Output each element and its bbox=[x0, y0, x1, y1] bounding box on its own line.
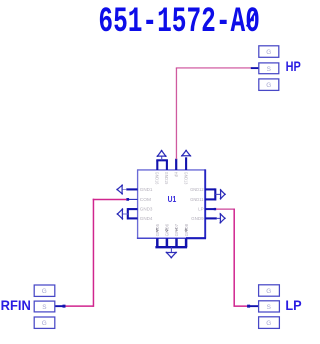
ground arrow GND9 bbox=[217, 213, 226, 223]
ground arrow GND3/GND4 bbox=[117, 208, 128, 219]
wire bracket GND3-GND4 bbox=[127, 208, 129, 219]
connector LP pad S bbox=[259, 301, 280, 312]
ground arrow GND1 bbox=[122, 189, 126, 191]
pin LP bbox=[198, 207, 214, 212]
svg-text:U1: U1 bbox=[168, 194, 177, 204]
svg-text:G: G bbox=[266, 320, 271, 327]
svg-text:S: S bbox=[267, 304, 271, 311]
wire bus bar bottom GND5-GND8 bbox=[155, 246, 187, 248]
connector HP pad G1 bbox=[259, 46, 279, 58]
svg-text:G: G bbox=[42, 288, 47, 295]
wire RFIN net bbox=[65, 199, 127, 307]
pin GND16 bbox=[155, 160, 160, 184]
svg-text:651-1572-A0: 651-1572-A0 bbox=[98, 2, 260, 42]
junction at COM bbox=[126, 198, 129, 201]
svg-text:HP: HP bbox=[174, 172, 179, 178]
wire stub LP connector bbox=[250, 305, 259, 307]
pin GND1 bbox=[126, 187, 153, 192]
wire HP net bbox=[176, 68, 259, 159]
svg-text:G: G bbox=[42, 320, 47, 327]
svg-text:GND9: GND9 bbox=[191, 216, 204, 221]
pin GND6 bbox=[165, 223, 170, 247]
junction at RFIN connector bbox=[63, 305, 66, 308]
svg-text:GND13: GND13 bbox=[183, 172, 188, 185]
svg-text:GND4: GND4 bbox=[140, 216, 153, 221]
wire stub RFIN connector bbox=[55, 305, 63, 307]
pin GND9 bbox=[191, 216, 217, 221]
pin COM bbox=[128, 197, 151, 202]
svg-text:GND16: GND16 bbox=[155, 172, 160, 185]
pin GND15 bbox=[164, 160, 169, 184]
connector RFIN pad G1 bbox=[34, 285, 55, 296]
connector HP pad S bbox=[259, 63, 279, 74]
pin GND11 bbox=[190, 197, 215, 202]
wire LP net bbox=[216, 209, 248, 307]
ground arrow GND12/GND11 bbox=[215, 189, 226, 199]
connector HP pad G2 bbox=[259, 79, 279, 91]
pin GND8 bbox=[184, 223, 189, 247]
op-amp U1 body bbox=[137, 169, 206, 238]
svg-text:S: S bbox=[42, 304, 46, 311]
pin GND7 bbox=[174, 223, 179, 247]
connector RFIN pad S bbox=[34, 301, 55, 312]
pin GND12 bbox=[190, 187, 215, 192]
slash of zero in title bbox=[247, 11, 256, 27]
wire bracket GND16-GND15 bbox=[156, 159, 168, 161]
junction at LP connector bbox=[247, 305, 250, 308]
connector LP pad G1 bbox=[259, 285, 280, 296]
connector LP pad G2 bbox=[259, 317, 280, 329]
ground arrow GND13 bbox=[182, 151, 190, 156]
pin HP bbox=[174, 159, 179, 178]
pin GND4 bbox=[128, 216, 153, 221]
svg-text:RFIN: RFIN bbox=[1, 297, 31, 313]
wire bracket GND12-GND11 bbox=[214, 188, 216, 200]
svg-text:GND3: GND3 bbox=[140, 207, 153, 212]
svg-text:G: G bbox=[266, 288, 271, 295]
pin GND13 bbox=[183, 157, 188, 184]
svg-text:LP: LP bbox=[198, 207, 204, 212]
svg-text:G: G bbox=[266, 82, 271, 89]
svg-text:GND12: GND12 bbox=[190, 187, 204, 192]
svg-text:LP: LP bbox=[285, 297, 301, 313]
pin GND5 bbox=[155, 223, 160, 247]
svg-text:COM: COM bbox=[140, 197, 151, 202]
pin GND3 bbox=[128, 207, 153, 212]
ground arrow bottom bbox=[166, 247, 177, 258]
svg-text:S: S bbox=[267, 66, 271, 73]
svg-text:HP: HP bbox=[286, 58, 301, 74]
svg-text:GND15: GND15 bbox=[164, 172, 169, 185]
ground arrow GND16/GND15 bbox=[157, 150, 167, 161]
connector RFIN pad G2 bbox=[34, 317, 55, 328]
junction at LP pin bbox=[214, 208, 216, 210]
svg-text:G: G bbox=[266, 49, 271, 56]
svg-text:GND11: GND11 bbox=[190, 197, 204, 202]
svg-text:GND1: GND1 bbox=[140, 187, 153, 192]
